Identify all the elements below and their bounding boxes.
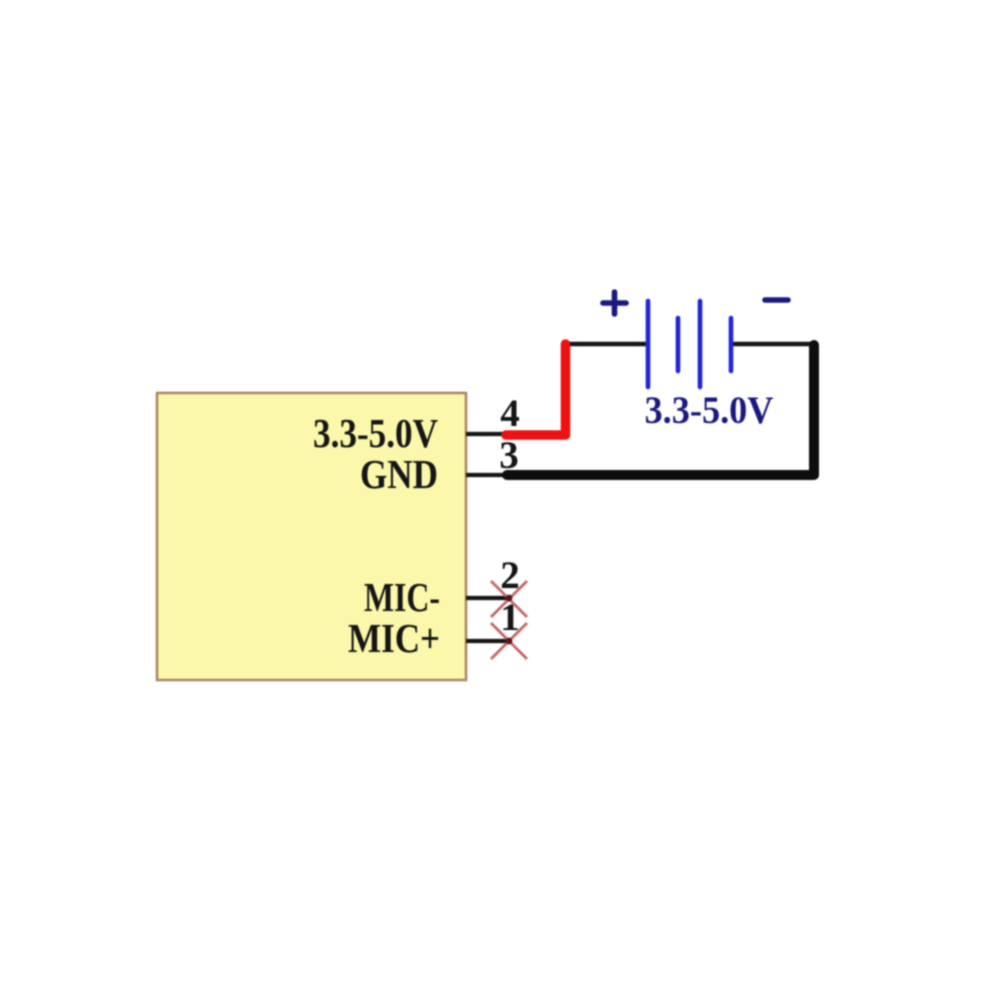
svg-text:MIC+: MIC+: [348, 615, 440, 661]
battery polarity -: [765, 297, 788, 303]
wire pin 3 stub: [466, 473, 510, 477]
no-connect X on pin 1: [491, 623, 527, 659]
wire battery positive (thin black, to plate): [564, 342, 650, 347]
battery BT1 plate long inner-right: [698, 301, 703, 387]
svg-text:MIC-: MIC-: [364, 574, 440, 620]
battery polarity +: [603, 292, 626, 314]
svg-text:4: 4: [500, 392, 520, 435]
svg-text:3.3-5.0V: 3.3-5.0V: [645, 389, 774, 432]
wire V+ (thick red): [506, 344, 566, 435]
svg-text:GND: GND: [360, 451, 438, 497]
wire pin 2 stub: [466, 596, 509, 600]
battery BT1 plate short right: [729, 318, 734, 371]
module U1 (microphone module body): [157, 393, 466, 680]
wire battery negative (thin black, from plate): [729, 342, 814, 347]
battery BT1 plate long left: [646, 301, 651, 387]
no-connect X on pin 2: [491, 581, 527, 617]
svg-text:3.3-5.0V: 3.3-5.0V: [313, 410, 438, 456]
wire GND return (thick black): [507, 345, 814, 475]
wire pin 1 stub: [466, 639, 509, 643]
wire pin 4 stub: [466, 432, 514, 436]
battery BT1 plate short inner-left: [676, 318, 681, 371]
